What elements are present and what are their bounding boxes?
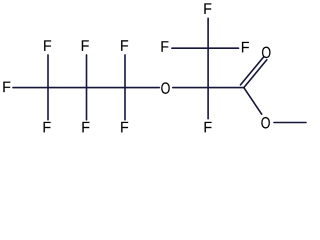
wire backbone F-C1-C2-C3 horizontal bond: [13, 87, 159, 89]
node F9 above C5 trifluoromethyl: [204, 3, 211, 14]
wire C3 vertical F-C3-F bond: [124, 55, 126, 120]
node O1 ether oxygen: [161, 82, 169, 93]
wire C6=O carbonyl double bond main line: [244, 60, 267, 88]
node F5 below C1: [44, 122, 51, 133]
node F11 right of C5: [242, 42, 249, 53]
node F8 below C4: [205, 122, 212, 133]
node F2 above C1: [44, 40, 51, 51]
node O2 carbonyl oxygen: [262, 47, 270, 58]
node F3 above C2: [82, 40, 89, 51]
node F6 below C2: [82, 122, 89, 133]
wire F10-C5-F11 horizontal bond of CF3 group: [172, 47, 239, 49]
node F1 terminal fluorine left: [3, 82, 10, 93]
wire C6-O(ester) single bond: [244, 88, 262, 115]
node F10 left of C5: [161, 41, 168, 52]
wire O(ether)-C4-C6 horizontal bond: [173, 87, 244, 89]
node F7 below C3: [121, 122, 128, 133]
wire C6=O carbonyl double bond second line: [241, 57, 264, 85]
wire F9-C5-C4-F8 vertical bond: [207, 18, 209, 118]
wire O(ester)-CH3 methyl bond: [274, 122, 306, 124]
wire C2 vertical F-C2-F bond: [86, 55, 88, 120]
node O3 ester oxygen: [261, 117, 269, 128]
node F4 above C3: [121, 40, 128, 51]
wire C1 vertical F-C1-F bond: [47, 55, 49, 120]
